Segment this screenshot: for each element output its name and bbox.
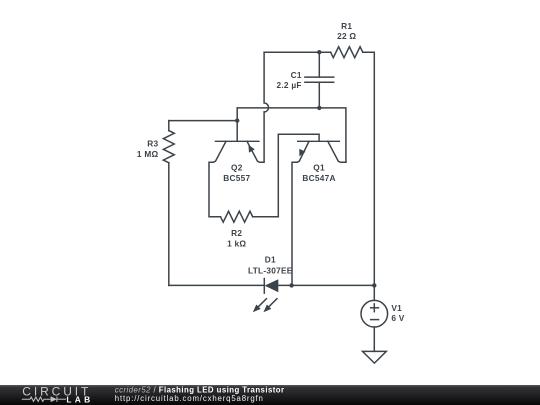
svg-text:http://circuitlab.com/cxherq5a: http://circuitlab.com/cxherq5a8rgfn [115,394,264,403]
svg-text:Q2: Q2 [231,163,243,173]
svg-text:BC547A: BC547A [302,173,335,183]
svg-text:C1: C1 [291,70,302,80]
svg-text:R3: R3 [147,138,158,148]
svg-text:LTL-307EE: LTL-307EE [248,266,293,276]
svg-text:R2: R2 [231,228,242,238]
svg-text:22 Ω: 22 Ω [337,31,356,41]
svg-text:1 kΩ: 1 kΩ [227,238,246,248]
svg-text:V1: V1 [391,303,402,313]
svg-text:Q1: Q1 [313,163,325,173]
svg-text:D1: D1 [265,255,276,265]
svg-text:6 V: 6 V [391,313,404,323]
svg-text:LAB: LAB [66,395,93,405]
svg-text:BC557: BC557 [223,173,250,183]
svg-text:1 MΩ: 1 MΩ [137,149,159,159]
svg-text:R1: R1 [341,21,352,31]
svg-text:2.2 µF: 2.2 µF [277,80,302,90]
